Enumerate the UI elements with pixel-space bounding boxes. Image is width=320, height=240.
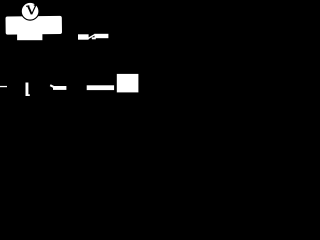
switch S1 left contact bar — [78, 34, 89, 39]
wire bottom right — [87, 85, 114, 90]
switch S1 right contact bar — [95, 34, 109, 38]
battery B1 body (top plate) — [5, 16, 62, 35]
resistor R1 bar — [53, 86, 66, 90]
switch S1 nub — [92, 37, 96, 39]
voltmeter V1 body — [21, 2, 39, 20]
lamp L1 box — [117, 74, 139, 93]
battery plate foot — [28, 94, 30, 96]
wire left — [0, 86, 7, 87]
background — [0, 0, 140, 127]
voltmeter V1 label V — [26, 5, 37, 15]
resistor R1 tick — [50, 85, 54, 87]
battery B1 lower plate — [17, 34, 42, 41]
switch S1 lever — [88, 34, 95, 38]
battery plate (vertical bar) — [26, 83, 29, 97]
